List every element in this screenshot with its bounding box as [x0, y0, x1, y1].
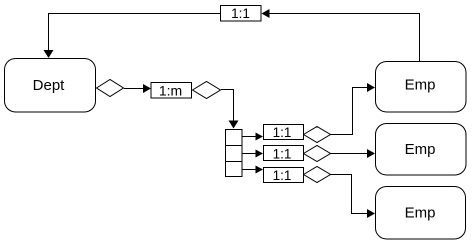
svg-text:1:1: 1:1 [273, 125, 292, 140]
svg-text:Dept: Dept [33, 77, 66, 94]
svg-text:1:1: 1:1 [273, 147, 292, 162]
svg-text:Emp: Emp [405, 77, 436, 94]
svg-text:1:1: 1:1 [273, 168, 292, 183]
svg-text:1:m: 1:m [159, 83, 182, 99]
svg-text:Emp: Emp [405, 141, 436, 158]
svg-text:1:1: 1:1 [231, 6, 250, 21]
svg-text:Emp: Emp [405, 205, 436, 222]
